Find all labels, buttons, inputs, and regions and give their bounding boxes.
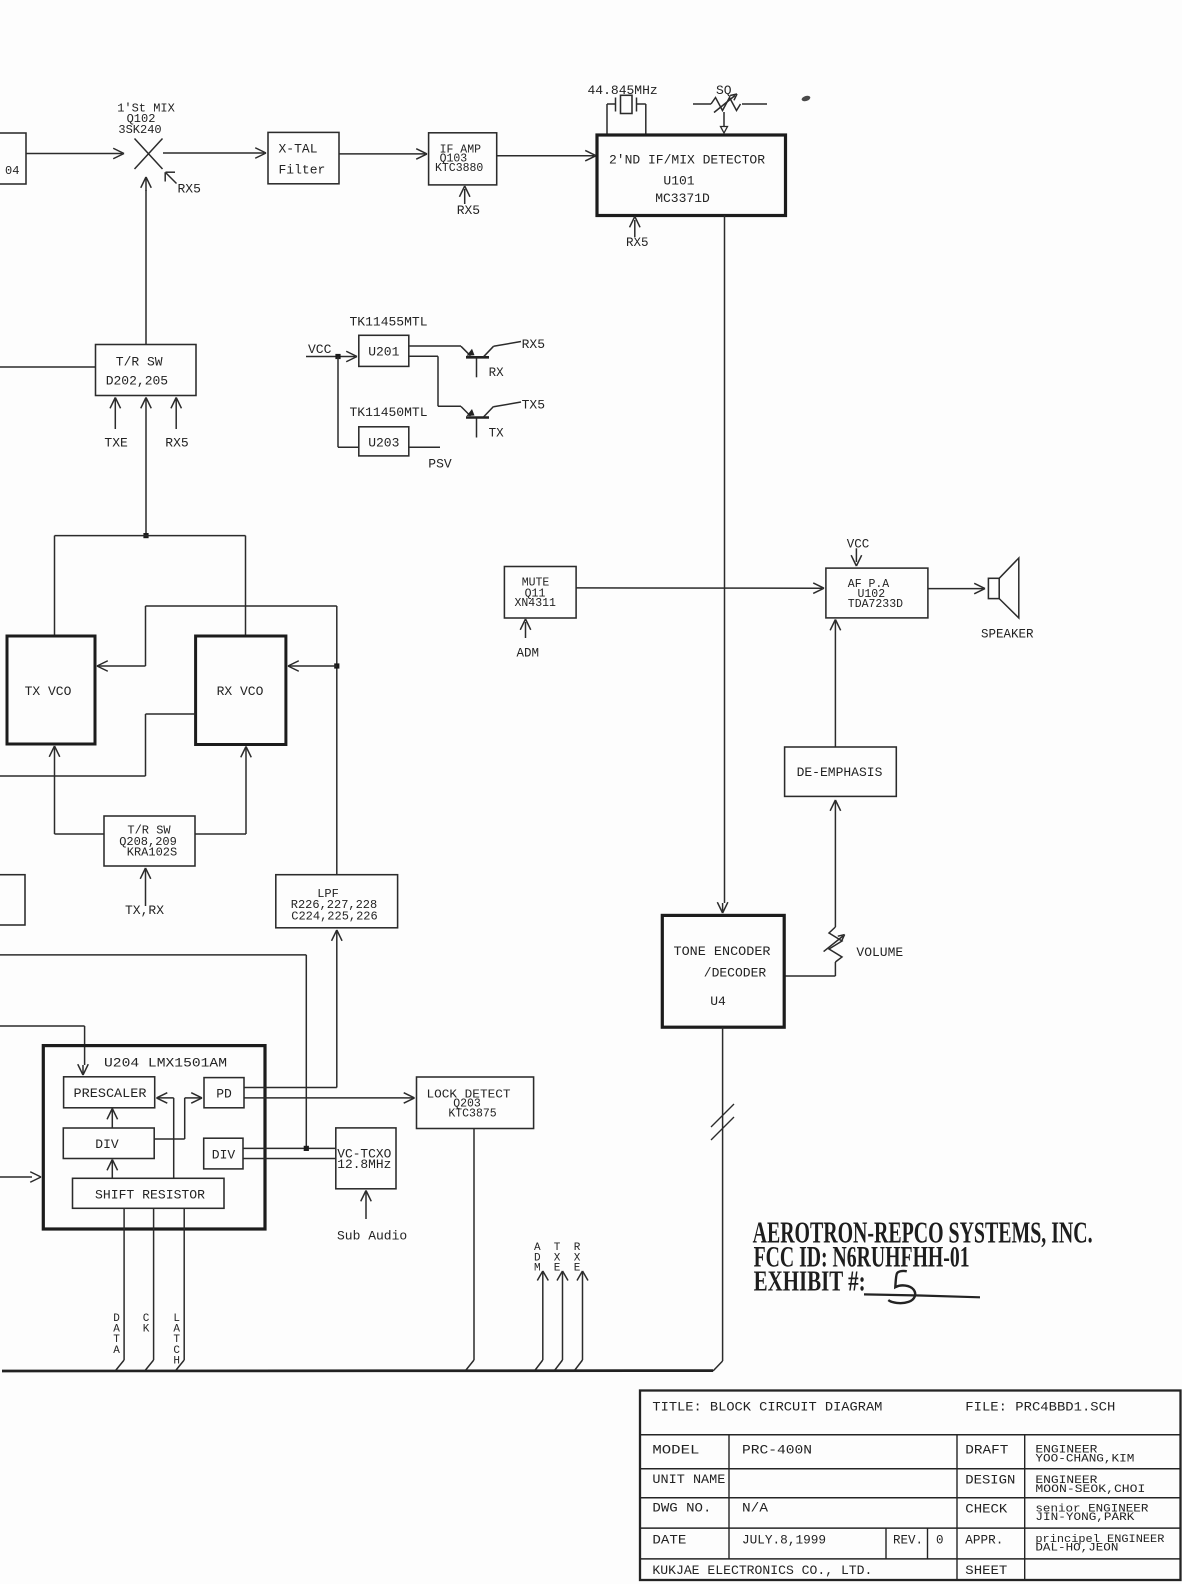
svg-text:KTC3880: KTC3880 [435, 162, 483, 175]
svg-text:UNIT NAME: UNIT NAME [652, 1473, 725, 1487]
svg-text:04: 04 [5, 164, 19, 178]
svg-text:YOO-CHANG,KIM: YOO-CHANG,KIM [1035, 1454, 1134, 1466]
svg-text:APPR.: APPR. [965, 1534, 1003, 1548]
svg-text:D202,205: D202,205 [106, 374, 168, 389]
svg-text:SPEAKER: SPEAKER [981, 628, 1034, 642]
svg-text:TK11450MTL: TK11450MTL [350, 405, 428, 420]
svg-text:RX VCO: RX VCO [217, 684, 264, 699]
svg-text:U4: U4 [710, 994, 726, 1009]
svg-text:TDA7233D: TDA7233D [848, 598, 903, 611]
svg-text:MC3371D: MC3371D [655, 191, 710, 206]
svg-text:X-TAL: X-TAL [279, 141, 318, 156]
svg-text:VCC: VCC [847, 537, 870, 551]
svg-text:N/A: N/A [742, 1502, 769, 1516]
svg-text:TITLE: BLOCK CIRCUIT DIAGRAM: TITLE: BLOCK CIRCUIT DIAGRAM [652, 1400, 882, 1414]
svg-text:KTC3875: KTC3875 [448, 1107, 496, 1120]
svg-text:T/R SW: T/R SW [116, 355, 163, 370]
svg-text:PRC-400N: PRC-400N [742, 1443, 812, 1457]
svg-text:M: M [534, 1263, 541, 1275]
svg-text:U203: U203 [368, 436, 399, 451]
svg-text:SHIFT RESISTOR: SHIFT RESISTOR [95, 1188, 205, 1203]
svg-text:/DECODER: /DECODER [704, 966, 767, 981]
svg-text:ADM: ADM [517, 646, 540, 660]
svg-text:TX5: TX5 [522, 398, 545, 413]
svg-text:Filter: Filter [279, 162, 326, 177]
svg-text:Sub Audio: Sub Audio [337, 1229, 407, 1244]
svg-text:U204 LMX1501AM: U204 LMX1501AM [104, 1056, 227, 1071]
svg-text:DATE: DATE [652, 1534, 686, 1548]
svg-text:FILE: PRC4BBD1.SCH: FILE: PRC4BBD1.SCH [965, 1400, 1115, 1414]
svg-text:MOON-SEOK,CHOI: MOON-SEOK,CHOI [1035, 1484, 1145, 1496]
svg-text:JULY.8,1999: JULY.8,1999 [742, 1534, 826, 1548]
svg-text:XN4311: XN4311 [514, 597, 556, 610]
svg-text:DWG NO.: DWG NO. [652, 1502, 711, 1516]
svg-text:DIV: DIV [95, 1137, 119, 1152]
svg-text:H: H [173, 1355, 180, 1367]
svg-text:U201: U201 [368, 345, 399, 360]
svg-text:KUKJAE ELECTRONICS CO., LTD.: KUKJAE ELECTRONICS CO., LTD. [652, 1564, 872, 1578]
svg-text:REV.: REV. [893, 1534, 923, 1548]
svg-text:0: 0 [936, 1534, 944, 1548]
svg-text:DE-EMPHASIS: DE-EMPHASIS [797, 765, 883, 780]
svg-text:DIV: DIV [212, 1148, 236, 1163]
svg-text:E: E [574, 1263, 581, 1275]
svg-text:PSV: PSV [428, 457, 452, 472]
svg-text:K: K [143, 1324, 150, 1336]
svg-text:EXHIBIT #:: EXHIBIT #: [754, 1266, 866, 1297]
svg-text:RX5: RX5 [165, 436, 188, 451]
svg-text:TXE: TXE [104, 436, 128, 451]
svg-text:TK11455MTL: TK11455MTL [350, 315, 428, 330]
svg-text:SHEET: SHEET [965, 1564, 1008, 1578]
svg-text:JIN-YONG,PARK: JIN-YONG,PARK [1035, 1512, 1134, 1524]
svg-text:2'ND IF/MIX DETECTOR: 2'ND IF/MIX DETECTOR [609, 152, 765, 167]
svg-text:12.8MHz: 12.8MHz [337, 1158, 391, 1172]
svg-text:3SK240: 3SK240 [118, 123, 161, 137]
svg-text:DRAFT: DRAFT [965, 1443, 1009, 1457]
svg-text:MODEL: MODEL [652, 1443, 699, 1457]
svg-text:PRESCALER: PRESCALER [74, 1086, 147, 1101]
svg-text:A: A [113, 1345, 120, 1357]
svg-text:SQ: SQ [716, 83, 732, 98]
svg-text:KRA102S: KRA102S [127, 846, 177, 860]
svg-text:CHECK: CHECK [965, 1503, 1008, 1517]
svg-text:TX VCO: TX VCO [25, 684, 72, 699]
svg-text:DESIGN: DESIGN [965, 1474, 1015, 1488]
svg-text:RX5: RX5 [457, 203, 480, 218]
svg-text:VCC: VCC [308, 342, 332, 357]
svg-text:TX: TX [489, 427, 505, 441]
svg-text:PD: PD [216, 1087, 232, 1102]
svg-text:TX,RX: TX,RX [125, 903, 164, 918]
svg-text:TONE ENCODER: TONE ENCODER [674, 944, 771, 959]
svg-text:E: E [554, 1263, 561, 1275]
svg-text:RX: RX [489, 366, 505, 380]
svg-text:VOLUME: VOLUME [856, 945, 903, 960]
svg-text:RX5: RX5 [522, 337, 545, 352]
svg-text:RX5: RX5 [626, 236, 649, 250]
svg-text:C224,225,226: C224,225,226 [291, 909, 377, 923]
svg-text:RX5: RX5 [178, 182, 201, 197]
svg-text:DAL-HO,JEON: DAL-HO,JEON [1035, 1543, 1118, 1555]
svg-text:U101: U101 [663, 173, 694, 188]
